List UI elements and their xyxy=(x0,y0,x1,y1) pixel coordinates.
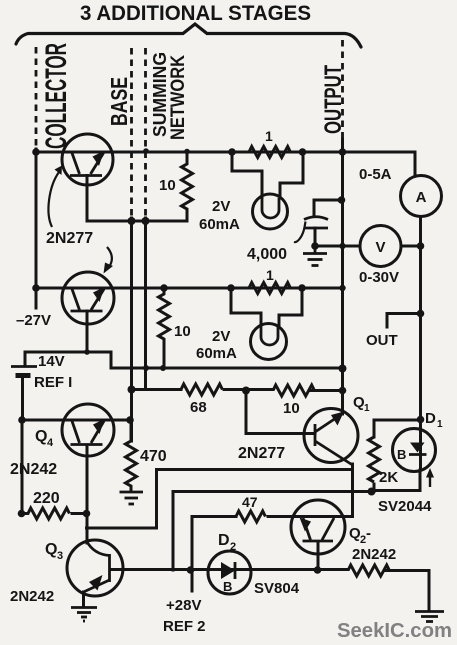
svg-text:0-5A: 0-5A xyxy=(359,166,392,183)
base bus solid xyxy=(130,218,133,441)
arrow from 2N277 to T2 xyxy=(107,247,112,267)
lamp2 right wire xyxy=(279,288,302,325)
svg-text:SUMMING: SUMMING xyxy=(150,52,170,137)
wire 68 line xyxy=(132,388,182,391)
svg-text:Q: Q xyxy=(45,541,57,558)
svg-text:1: 1 xyxy=(437,419,443,430)
line B xyxy=(173,492,372,571)
Q4 chord xyxy=(62,419,130,422)
svg-text:3 ADDITIONAL STAGES: 3 ADDITIONAL STAGES xyxy=(80,2,311,25)
svg-text:D: D xyxy=(218,532,230,549)
resistor 10 third xyxy=(273,385,314,396)
47 line right xyxy=(268,515,291,518)
output bus dashed xyxy=(341,40,344,139)
svg-text:+28V: +28V xyxy=(166,597,201,614)
collector bus solid xyxy=(35,149,38,308)
resistor 10 first (vertical) xyxy=(182,152,193,222)
summing bus dashed xyxy=(144,48,147,218)
resistor 470 (vertical) xyxy=(126,420,137,491)
svg-text:470: 470 xyxy=(140,448,167,465)
47 line left xyxy=(192,515,236,518)
svg-text:2V: 2V xyxy=(212,198,230,215)
svg-text:60mA: 60mA xyxy=(199,216,240,233)
arrow up near D1 xyxy=(429,474,431,487)
T1 emitter lead xyxy=(86,176,89,222)
svg-text:10: 10 xyxy=(159,177,176,194)
cap bottom lead xyxy=(314,228,317,246)
ammeter xyxy=(401,176,442,217)
capacitor 4000 xyxy=(294,217,328,242)
lamp2 left wire xyxy=(231,288,261,324)
wire 10 to output bus xyxy=(310,389,343,392)
battery lead down xyxy=(21,378,24,420)
right bus xyxy=(419,246,422,428)
svg-text:OUT: OUT xyxy=(366,332,398,349)
resistor 68 xyxy=(181,384,222,395)
svg-text:REF 2: REF 2 xyxy=(163,618,206,635)
battery 14V xyxy=(11,367,37,376)
bottom resistor right wire xyxy=(385,571,429,612)
lamp 2 xyxy=(251,324,287,360)
resistor 1 first xyxy=(249,147,290,158)
transistor Q1 xyxy=(304,409,358,463)
svg-text:10: 10 xyxy=(174,323,191,340)
ammeter to voltmeter bus xyxy=(419,217,422,247)
svg-text:10: 10 xyxy=(283,400,300,417)
transistor Q3 xyxy=(67,540,123,596)
Q1 base feed xyxy=(246,391,315,434)
svg-text:1: 1 xyxy=(265,128,273,144)
svg-text:SV804: SV804 xyxy=(254,580,300,597)
transistor Q4 xyxy=(62,404,114,456)
ground under 470 xyxy=(120,492,144,504)
svg-text:1: 1 xyxy=(364,403,370,414)
svg-text:220: 220 xyxy=(33,490,60,507)
collector bus dashed top xyxy=(35,47,38,149)
voltmeter xyxy=(360,226,401,267)
transistor T2 xyxy=(62,272,114,324)
transistor Q2 xyxy=(291,500,345,554)
svg-text:Q: Q xyxy=(35,428,47,445)
wire 220 to Q4 lead xyxy=(72,512,87,515)
Q4 emitter lead xyxy=(86,446,89,543)
diode D1 xyxy=(393,429,436,472)
svg-text:SV2044: SV2044 xyxy=(378,498,432,515)
wire rail to ammeter xyxy=(414,152,417,176)
svg-text:4: 4 xyxy=(47,437,54,449)
47 corner vertical / +28V lead xyxy=(191,517,194,592)
cap to voltmeter wire xyxy=(315,245,360,248)
svg-text:2V: 2V xyxy=(212,328,230,345)
resistor 220 xyxy=(22,508,70,519)
main bottom line xyxy=(110,568,348,571)
right bus through D1 down xyxy=(419,428,422,470)
output bus solid xyxy=(341,139,344,414)
svg-text:14V: 14V xyxy=(38,353,65,370)
svg-text:2K: 2K xyxy=(379,469,398,486)
svg-text:3: 3 xyxy=(57,550,63,562)
wire 68 to 10 xyxy=(224,388,273,391)
svg-text:2N277: 2N277 xyxy=(238,445,285,462)
svg-text:B: B xyxy=(397,447,406,462)
ground under cap xyxy=(303,246,327,266)
2K top wire xyxy=(374,420,420,437)
arrow from 2N277 to T1 xyxy=(48,172,59,227)
svg-text:SeekIC.com: SeekIC.com xyxy=(337,620,452,642)
resistor 10 second (vertical) xyxy=(159,288,170,368)
svg-text:47: 47 xyxy=(242,494,258,510)
top rail xyxy=(36,151,415,154)
summing bus solid xyxy=(144,218,147,390)
battery top bend xyxy=(24,352,27,364)
svg-text:2N277: 2N277 xyxy=(46,230,93,247)
D1 bottom path xyxy=(372,470,421,491)
svg-text:BASE: BASE xyxy=(106,77,132,126)
ground under Q3 xyxy=(71,608,97,622)
wire res1a left xyxy=(232,151,249,154)
svg-text:2N242: 2N242 xyxy=(10,588,54,605)
Q1 emitter vertical xyxy=(351,464,354,517)
svg-text:V: V xyxy=(375,239,385,256)
svg-text:-: - xyxy=(366,525,371,542)
resistor 47 xyxy=(236,511,265,522)
svg-text:68: 68 xyxy=(190,399,207,416)
14V line left xyxy=(25,352,343,368)
Q2 chord xyxy=(291,515,353,518)
svg-text:4,000: 4,000 xyxy=(247,246,287,263)
brace under header xyxy=(16,24,361,47)
svg-text:B: B xyxy=(223,579,232,594)
wire battery to Q4 xyxy=(22,419,62,422)
resistor 2K (vertical) xyxy=(369,437,380,482)
Q3 bottom lead xyxy=(82,592,85,607)
resistor 1 second xyxy=(249,283,290,294)
battery bus down xyxy=(21,420,24,514)
T2 emitter lead xyxy=(86,311,89,352)
svg-text:2N242: 2N242 xyxy=(10,461,57,478)
lamp 1 xyxy=(253,194,288,229)
svg-text:D: D xyxy=(425,410,436,427)
svg-text:0-30V: 0-30V xyxy=(359,269,399,286)
svg-text:REF I: REF I xyxy=(34,374,72,391)
svg-text:1: 1 xyxy=(266,267,274,283)
OUT terminal xyxy=(387,314,421,328)
voltmeter right wire xyxy=(401,245,421,248)
diode D2 xyxy=(208,551,251,594)
svg-text:2N242: 2N242 xyxy=(352,546,396,563)
resistor bottom right xyxy=(348,565,389,576)
line A xyxy=(87,470,353,529)
2K bottom lead xyxy=(373,484,376,492)
transistor T1 xyxy=(62,134,113,185)
svg-text:NETWORK: NETWORK xyxy=(168,55,189,140)
svg-text:–27V: –27V xyxy=(16,312,51,329)
T2 line / lamp2 line xyxy=(36,287,343,290)
base bus dashed xyxy=(130,48,133,218)
svg-text:A: A xyxy=(416,189,427,206)
svg-text:2: 2 xyxy=(230,541,236,553)
lamp1 left wire xyxy=(232,152,262,197)
summing network line xyxy=(87,220,187,223)
lamp1 right wire xyxy=(280,152,303,198)
svg-text:60mA: 60mA xyxy=(196,345,237,362)
svg-text:COLLECTOR: COLLECTOR xyxy=(40,43,73,149)
wire res1a right xyxy=(291,151,304,154)
Q2 emitter lead xyxy=(317,542,320,570)
ground bottom right xyxy=(415,612,444,622)
cap branch top xyxy=(314,200,342,216)
